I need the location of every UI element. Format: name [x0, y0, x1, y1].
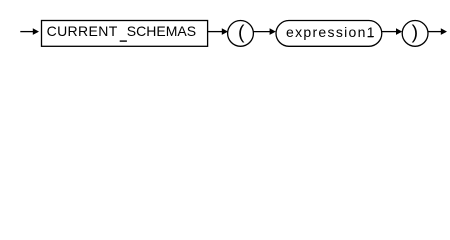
svg-text:SCHEMAS: SCHEMAS	[127, 23, 196, 39]
arrowhead into expression1	[270, 28, 276, 35]
svg-text:expression1: expression1	[286, 24, 376, 40]
close-paren circle	[402, 21, 428, 47]
svg-text:CURRENT: CURRENT	[47, 23, 118, 39]
wire start segment	[20, 31, 33, 33]
final arrowhead	[441, 28, 447, 35]
variable oval expression1	[276, 21, 382, 47]
terminal box CURRENT_SCHEMAS	[42, 21, 208, 47]
svg-text:): )	[412, 22, 419, 44]
arrowhead into close-paren	[396, 28, 402, 35]
wire close-paren to end	[428, 31, 442, 33]
arrowhead into CURRENT_SCHEMAS box	[33, 28, 39, 35]
svg-text:(: (	[238, 22, 245, 44]
open-paren circle	[228, 21, 254, 47]
wire box to open-paren	[208, 31, 223, 33]
wire expression1 to close-paren	[382, 31, 397, 33]
wire open-paren to expression1	[253, 31, 270, 33]
arrowhead into open-paren	[222, 28, 228, 35]
